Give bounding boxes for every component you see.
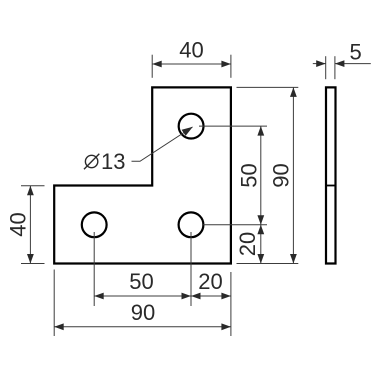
extension line down from bottom-right hole [190, 232, 192, 306]
dim 50 bottom arrow left [94, 293, 104, 300]
dim 40 top arrow right [221, 61, 231, 68]
dim 20 bottom dimension line [191, 295, 231, 297]
dim 40 top extension line right [230, 55, 232, 78]
side view plate (thickness 5) [326, 87, 336, 263]
dim 5 arrow pointing left [335, 60, 345, 67]
dim 50 right extension line from bottom-right hole [202, 224, 267, 226]
dim 40 left dimension line [29, 186, 31, 264]
dim 20 bottom arrow right [221, 293, 231, 300]
svg-text:90: 90 [268, 163, 293, 187]
svg-text:40: 40 [179, 38, 203, 63]
extension line down from bottom-left hole [93, 232, 95, 306]
svg-text:5: 5 [349, 40, 361, 65]
dim 40 left arrow up [27, 186, 34, 196]
dim 20 bottom arrow left [191, 293, 201, 300]
dim 5 arrow pointing right [316, 60, 326, 67]
dim 90 bottom dimension line [54, 326, 231, 328]
dim 40 top arrow left [152, 61, 162, 68]
dim 90 bottom arrow right [221, 323, 231, 330]
dim 90 right extension line top [237, 86, 299, 88]
dim 50 right dimension line [260, 126, 262, 225]
extension line down from plate left edge [53, 270, 55, 337]
dim 50 right arrow down [257, 215, 264, 225]
side view step edge [325, 185, 336, 187]
diameter symbol of Ø13 label [84, 154, 99, 169]
svg-text:50: 50 [129, 269, 153, 294]
extension line down from plate right edge [230, 272, 232, 336]
dim 90 right dimension line [292, 87, 294, 263]
dim 5 top-right extension line right [334, 56, 336, 79]
dim 40 left extension line top [21, 185, 45, 187]
dim 50 right extension line from top hole [199, 125, 267, 127]
dim 90 right extension line bottom [237, 263, 299, 265]
svg-text:50: 50 [237, 163, 262, 187]
hole bottom-left Ø13 [82, 212, 107, 237]
dim 90 right arrow down [290, 254, 297, 264]
hole bottom-right Ø13 [179, 212, 204, 237]
svg-text:40: 40 [6, 212, 31, 236]
dim 90 right arrow up [290, 87, 297, 97]
plate front view outline (L-shape 90x90) [54, 87, 231, 263]
svg-text:20: 20 [198, 269, 222, 294]
dim 20 right dimension line [260, 225, 262, 264]
svg-text:90: 90 [131, 300, 155, 325]
dim 40 top extension line left [151, 55, 153, 78]
dim 40 left arrow down [27, 254, 34, 264]
dim 40 left extension line bottom [21, 263, 45, 265]
dim 40 top dimension line [152, 63, 231, 65]
dim 50 right arrow up [257, 126, 264, 136]
hole top Ø13 [179, 114, 204, 139]
svg-text:13: 13 [101, 149, 125, 174]
svg-text:20: 20 [235, 232, 260, 256]
dim 90 bottom arrow left [54, 323, 64, 330]
leader arrowhead at top hole [182, 127, 193, 136]
dim 20 right arrow down [257, 254, 264, 264]
dim 5 top-right dimension line with outside arrows [313, 63, 326, 65]
leader line from Ø13 label to top hole [132, 127, 193, 161]
dim 20 right arrow up [257, 225, 264, 235]
dim 50 bottom arrow right [182, 293, 192, 300]
dim 5 top-right extension line left [325, 56, 327, 79]
dim 50 bottom dimension line [94, 295, 191, 297]
